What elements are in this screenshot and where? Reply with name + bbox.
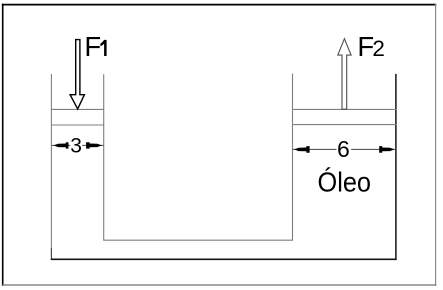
svg-text:F: F <box>84 31 101 62</box>
svg-text:3: 3 <box>70 134 82 157</box>
svg-text:2: 2 <box>372 36 385 61</box>
svg-text:Óleo: Óleo <box>318 167 372 198</box>
svg-text:6: 6 <box>337 136 350 162</box>
